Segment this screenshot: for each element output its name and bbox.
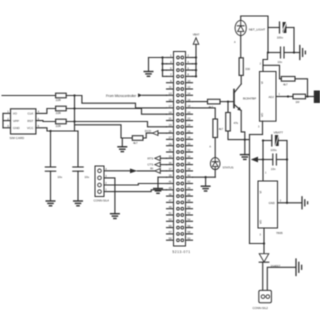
svg-text:49: 49 [169,205,172,209]
wire SIL4 arrow to RI arrow [137,170,155,172]
svg-text:12: 12 [187,85,190,89]
svg-text:33: 33 [169,155,172,159]
svg-text:VCC: VCC [27,126,34,130]
label J1 value [172,250,190,254]
svg-text:59: 59 [169,236,172,240]
svg-text:10: 10 [187,79,190,83]
junction R8-R9 [306,95,308,97]
label CONN-SIL4 [94,199,110,203]
wire pin3 stub [163,63,167,65]
svg-text:52: 52 [187,211,190,215]
wire CTS to pin35 [160,164,166,166]
wire RST jog [36,120,56,123]
label C2 [278,60,283,64]
label D1 [271,264,281,268]
label R7 [234,121,239,125]
port arrow VBATT [251,157,263,163]
ground G7 [201,177,210,191]
wire SIL2 pin2 to ground [267,267,296,290]
label R5 [133,141,138,145]
capacitor C4 10u [45,167,62,179]
arrow from microcontroller [138,93,142,97]
svg-text:CONN-SIL4: CONN-SIL4 [94,199,110,203]
svg-text:47k: 47k [234,121,239,125]
wire to ground G11 [294,52,300,54]
svg-text:DCD: DCD [145,129,151,133]
label R2 [56,111,61,115]
wire led top [241,16,268,53]
wire pin39 to ground [158,176,167,178]
regulator U2 7805 [258,171,278,228]
wire R9 right [306,96,315,98]
wire U1 output pin [258,121,263,134]
svg-text:25: 25 [169,129,172,133]
junction battery feed [263,242,265,244]
wire pin7 stub [163,75,167,77]
wire emitter [241,111,245,140]
wire pin18 to R10 [193,108,216,119]
svg-text:VPP: VPP [13,119,19,123]
wire C1 right rail [293,28,295,53]
label R8 [283,82,288,86]
wire DCD jog [143,133,153,138]
resistor R1 22R [56,93,67,98]
wire L1 (R1 to pin17) [66,96,166,108]
svg-text:CLK: CLK [28,112,34,116]
junction gnd rail [286,202,288,204]
ground G1 [144,58,153,77]
svg-text:NET_LIGHT: NET_LIGHT [249,28,266,32]
svg-text:22: 22 [187,117,190,121]
svg-text:16: 16 [187,98,190,102]
wire C4 stem [50,131,52,167]
wire led anode [234,36,241,58]
svg-text:47: 47 [169,199,172,203]
svg-text:27: 27 [169,136,172,140]
wire bus pins 3-5-7 [162,58,164,77]
label CONN-SIL2 [253,306,269,310]
junction status gnd [204,176,206,178]
port arrow CTS [155,162,161,167]
junction emitter node [244,138,246,140]
svg-text:GND: GND [269,201,275,205]
junction cap rails [267,51,295,53]
label R4 [245,67,250,71]
resistor R6 4k7 [208,99,221,104]
resistor R9 1M [293,94,306,99]
label STATUS [223,166,234,170]
svg-text:20: 20 [187,110,190,114]
svg-text:58: 58 [187,230,190,234]
wire U2 gnd pin [278,199,303,203]
svg-text:4k7: 4k7 [209,105,214,109]
svg-text:44: 44 [187,186,190,190]
svg-text:51: 51 [169,211,172,215]
svg-text:34: 34 [187,155,190,159]
label C6 [271,167,276,171]
wire pin2 stub [193,57,197,59]
wire battery feed [250,243,265,245]
label RI [150,167,153,171]
resistor R4 330 [239,58,243,76]
svg-text:100u: 100u [271,148,278,152]
wire pin1 to ground [149,57,167,59]
svg-text:46: 46 [187,192,190,196]
svg-text:From Microcontroller: From Microcontroller [106,94,137,98]
wire pin16 to R6 [193,101,208,103]
svg-text:48: 48 [187,199,190,203]
capacitor C5 10u [73,167,90,179]
wire SIL4 pin2 to pin41 [104,184,167,186]
junction VBAT bus [195,56,197,77]
svg-text:53: 53 [169,218,172,222]
wire C5 stem [77,131,79,167]
capacitor C2 10n [268,47,294,58]
wire CLK jog [36,109,56,114]
svg-text:VBAT: VBAT [193,33,200,37]
svg-text:RTS: RTS [147,156,153,160]
svg-text:35: 35 [169,161,172,165]
svg-text:26: 26 [187,129,190,133]
svg-text:7805: 7805 [276,231,283,235]
svg-text:37: 37 [169,167,172,171]
ground G6 [154,177,163,193]
connector J1 60-pin board-to-board 5213-071 [167,52,193,247]
svg-text:I/O: I/O [13,112,18,116]
resistor R5 4k7 (DCD pulldown) [132,136,143,141]
label Q1 [243,97,256,101]
svg-text:56: 56 [187,224,190,228]
ground G11 [300,46,306,60]
wire RTS to pin33 [160,157,166,159]
ground G10 [302,197,308,209]
label VBATT [274,131,284,135]
svg-text:32: 32 [187,148,190,152]
wire 47k top [227,102,229,113]
svg-text:14: 14 [187,92,190,96]
wire ADJ pin [276,93,288,97]
junction R right bus [73,94,75,122]
svg-text:28: 28 [187,136,190,140]
wire collector [240,75,242,84]
svg-text:57: 57 [169,230,172,234]
svg-text:41: 41 [169,180,172,184]
svg-text:45: 45 [169,192,172,196]
wire L3 (R3 to pin23) [66,122,166,127]
wire diode anode [263,244,265,254]
svg-text:22R: 22R [56,98,61,102]
capacitor C3 100u [263,135,287,146]
svg-text:VI: VI [260,81,264,84]
wire SIL4 pin1 to pin43 [104,190,167,192]
ground G9 [296,259,302,276]
svg-text:4k7: 4k7 [283,82,288,86]
wire battery rail [249,135,251,244]
svg-text:VI: VI [258,191,262,194]
svg-text:17: 17 [169,104,172,108]
SIM card J2 [7,109,39,134]
svg-text:13: 13 [169,92,172,96]
svg-text:10u: 10u [85,175,90,179]
port arrow RTS [155,156,161,161]
wire SIM left pins tie [3,113,11,127]
label U2 [276,231,283,235]
ground G8 [241,140,250,160]
svg-text:4k7: 4k7 [133,141,138,145]
svg-text:RI: RI [150,167,153,171]
svg-text:ADJ: ADJ [269,95,275,99]
wire SIL4 pin3 to ground [104,178,115,214]
label R9 [296,100,301,104]
svg-text:BC847BP: BC847BP [243,97,256,101]
svg-text:60: 60 [187,236,190,240]
svg-text:39: 39 [169,173,172,177]
led D2 NET_LIGHT [235,20,246,35]
terminal port right [314,91,320,104]
svg-text:19: 19 [169,110,172,114]
wire diode to SIL2 pin1 [262,262,264,290]
label From Microcontroller [106,94,137,98]
wire DCD to pin25 [158,132,167,134]
wire R8 right [295,79,308,97]
svg-text:54: 54 [187,218,190,222]
led D3 STATUS [210,158,220,170]
wire VBATT right rail [286,141,288,203]
transistor Q1 BC847BP [234,84,241,111]
port arrow RI [155,169,161,174]
wire SIL4 pin4 [104,170,130,172]
svg-text:1M: 1M [296,100,301,104]
wire R8 left riser [263,65,281,79]
resistor R8 4k7 [281,77,295,82]
svg-text:10n: 10n [278,60,283,64]
wire U1 out to input rail [250,134,263,136]
svg-text:36: 36 [187,161,190,165]
svg-text:23: 23 [169,123,172,127]
svg-text:100u: 100u [277,36,284,40]
svg-text:330: 330 [245,67,250,71]
svg-text:RST: RST [27,119,33,123]
ground G2 [46,171,55,206]
wire led to pin40 net [193,170,216,178]
svg-text:VBATT: VBATT [274,131,284,135]
svg-text:38: 38 [187,167,190,171]
arrow SIL4 signal [130,169,137,174]
resistor R7 47k [226,113,231,132]
wire U1 input staircase [260,53,268,72]
svg-text:42: 42 [187,180,190,184]
svg-text:STATUS: STATUS [223,166,234,170]
wire R10 to led [209,138,215,158]
wire uC to pin13 [142,94,166,96]
capacitor C6 10n [263,154,287,165]
svg-text:CONN-SIL2: CONN-SIL2 [253,306,269,310]
svg-text:24: 24 [187,123,190,127]
wire L2 (R2 to pin19) [66,109,166,115]
label RTS [147,156,153,160]
wire 47k bottom [228,131,250,140]
junction pins net [161,56,163,71]
svg-text:21: 21 [169,117,172,121]
wire RI to pin37 [160,170,166,172]
svg-text:4k7: 4k7 [219,127,224,131]
label CTS [147,163,153,167]
svg-text:50: 50 [187,205,190,209]
wire R6 to base [220,101,234,103]
wire pin6 stub [193,69,197,71]
svg-text:31: 31 [169,148,172,152]
svg-text:29: 29 [169,142,172,146]
label NET_LIGHT [249,28,266,32]
svg-text:40: 40 [187,173,190,177]
wire pin8 stub [193,75,197,77]
label C1 [277,36,284,40]
svg-text:10n: 10n [271,167,276,171]
port arrow DCD [153,131,159,136]
wire TXD from edge [2,95,56,97]
ground G3 [74,171,83,206]
label R10 [219,127,224,131]
svg-text:GND: GND [13,126,21,130]
svg-text:43: 43 [169,186,172,190]
capacitor C1 100u [268,22,294,33]
label R1 [56,98,61,102]
wire R9 left [288,96,293,98]
svg-text:SIM CARD: SIM CARD [10,136,26,140]
wire VCC down [36,128,78,131]
ground G4 [111,214,120,219]
wire L4 (I/O to DCD pulldown) [75,125,133,138]
connector J4 CONN-SIL2 [259,290,272,302]
wire U2 bottom pin [259,228,264,244]
svg-text:22R: 22R [56,111,61,115]
svg-text:18: 18 [187,104,190,108]
junction VCC cap tap [49,130,51,132]
wire pin5 stub [163,69,167,71]
svg-text:5213-071: 5213-071 [172,250,190,254]
svg-text:15: 15 [169,98,172,102]
power flag VBAT [193,33,200,58]
resistor R10 4k7 [213,119,218,138]
label R6 [209,105,214,109]
svg-text:10u: 10u [58,175,63,179]
label SIM card [10,136,26,140]
label C3 [271,148,278,152]
regulator U1 [260,72,277,122]
svg-text:55: 55 [169,224,172,228]
wire pin4 stub [193,63,197,65]
wire VBATT left rail [262,141,264,182]
svg-text:11: 11 [169,85,172,89]
label DCD [145,129,151,133]
junction ADJ node [287,95,289,97]
ground G5 [118,138,127,152]
diode D1 1N4007 [259,254,269,263]
resistor R3 22R [56,119,67,124]
wire right vertical bus [74,96,76,132]
connector J3 CONN-SIL4 [95,166,107,197]
svg-text:30: 30 [187,142,190,146]
junction base node [227,100,229,102]
svg-text:22R: 22R [56,124,61,128]
resistor R2 22R [56,106,67,111]
label R3 [56,124,61,128]
wire bus pins 2-4-6-8 [195,58,197,77]
junction VBATT rails [262,139,288,160]
